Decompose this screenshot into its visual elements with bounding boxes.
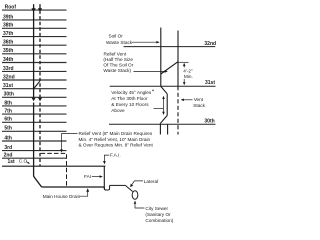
- svg-text:37th: 37th: [3, 31, 13, 37]
- svg-text:At The 30th Floor: At The 30th Floor: [111, 96, 148, 101]
- soil stack (left diagram): [34, 4, 42, 187]
- fresh air inlet vertical: [103, 166, 105, 189]
- svg-text:6th: 6th: [4, 117, 11, 123]
- Soil Or Waste Stack arrow: [132, 41, 158, 43]
- 34th line: [2, 62, 67, 64]
- soil stack bend into drain: [34, 166, 42, 187]
- 31st line detail: [110, 85, 216, 87]
- svg-text:5th: 5th: [4, 126, 11, 132]
- svg-text:Waste Stack: Waste Stack: [106, 40, 133, 45]
- 8th line: [2, 105, 67, 107]
- svg-text:Vent: Vent: [194, 97, 204, 102]
- detail floor lines: [109, 47, 216, 125]
- mini relief vent diagonal between 32nd and 31st: [34, 81, 40, 88]
- svg-text:Min. 4” Relief Vent, 10” Main: Min. 4” Relief Vent, 10” Main Drain: [79, 137, 151, 142]
- svg-text:Soil Or: Soil Or: [109, 34, 124, 39]
- svg-text:Above: Above: [111, 108, 125, 113]
- svg-text:(Sanitary Or: (Sanitary Or: [145, 212, 171, 217]
- relief vent note leader: [62, 134, 78, 151]
- 33rd line: [2, 70, 67, 72]
- svg-text:F.A.I.: F.A.I.: [110, 152, 121, 157]
- 5th line: [2, 130, 67, 132]
- flow arrow on waste stack below 30th line: [38, 98, 42, 102]
- 6th line: [2, 121, 67, 123]
- dimension 4'-2" min extension line: [178, 61, 188, 63]
- flow arrow on soil stack below 30th line: [32, 98, 36, 102]
- svg-text:35th: 35th: [3, 48, 13, 54]
- svg-text:4’-2”: 4’-2”: [183, 68, 193, 73]
- svg-text:34th: 34th: [3, 57, 13, 63]
- house trap hub: [104, 185, 109, 190]
- svg-text:& Every 10 Floors: & Every 10 Floors: [111, 102, 149, 107]
- svg-text:Main House Drain: Main House Drain: [43, 194, 81, 199]
- 39th line: [2, 19, 67, 21]
- svg-text:30th: 30th: [204, 118, 214, 124]
- svg-text:Min.: Min.: [184, 74, 193, 79]
- Relief Vent arrow: [134, 70, 166, 72]
- 1st floor line merging into main house drain top line: [2, 165, 105, 167]
- svg-text:4th: 4th: [4, 135, 11, 141]
- svg-text:C.O.: C.O.: [19, 158, 29, 163]
- vent terminal arrow right stack: [38, 8, 42, 12]
- manhole ellipse: [132, 191, 138, 199]
- relief vent dashed pipe at base: [41, 153, 67, 186]
- svg-text:Of The Soil Or: Of The Soil Or: [103, 62, 133, 67]
- svg-text:38th: 38th: [3, 23, 13, 29]
- dimension 4'-2" min arrow line: [183, 64, 185, 68]
- 36th line: [2, 44, 67, 46]
- 30th line detail: [109, 123, 216, 125]
- vent stack (detail) dashed part: [177, 86, 179, 134]
- C.O. leader: [26, 162, 28, 163]
- svg-text:(Half The Size: (Half The Size: [103, 57, 133, 62]
- svg-text:Lateral: Lateral: [144, 179, 158, 184]
- svg-text:Combination): Combination): [145, 218, 173, 223]
- svg-text:City Sewer: City Sewer: [145, 206, 168, 211]
- 38th line: [2, 27, 67, 29]
- Main House Drain leader: [80, 191, 88, 197]
- Velocity leader double arrow: [154, 108, 164, 110]
- stray mark: [152, 90, 153, 91]
- 3rd line: [2, 150, 67, 152]
- 7th line: [2, 113, 67, 115]
- 45 deg offset below 31st: [161, 86, 167, 93]
- svg-text:31st: 31st: [205, 80, 215, 86]
- svg-text:FAI: FAI: [84, 174, 91, 179]
- Vent Stack arrow: [183, 99, 193, 101]
- lateral line: [110, 184, 126, 186]
- svg-text:33rd: 33rd: [3, 66, 14, 72]
- lateral diagonal to manhole: [125, 185, 132, 191]
- floor lines left diagram: [2, 10, 67, 158]
- F.A.I. leader: [104, 155, 109, 162]
- svg-text:Relief Vent (8” Main Drain Req: Relief Vent (8” Main Drain Requires: [79, 131, 153, 136]
- svg-text:& Over Requires Min. 8” Relief: & Over Requires Min. 8” Relief Vent: [79, 143, 154, 148]
- 32nd line detail: [124, 46, 216, 48]
- vent stack (detail) solid part: [177, 31, 179, 87]
- svg-text:Relief Vent: Relief Vent: [104, 52, 127, 57]
- svg-text:Roof: Roof: [5, 4, 17, 10]
- branch stub below 30th: [167, 124, 169, 134]
- svg-text:7th: 7th: [4, 109, 11, 115]
- 32nd line: [2, 79, 67, 81]
- svg-text:30th: 30th: [4, 92, 14, 98]
- main house drain bottom line: [42, 186, 105, 188]
- floor labels left: [3, 4, 16, 165]
- svg-text:32nd: 32nd: [204, 41, 216, 47]
- svg-text:2nd: 2nd: [4, 153, 13, 159]
- svg-text:3rd: 3rd: [4, 145, 12, 151]
- svg-text:1st: 1st: [8, 159, 16, 165]
- 37th line: [2, 36, 67, 38]
- svg-text:32nd: 32nd: [3, 74, 15, 80]
- svg-text:Velocity 45° Angles: Velocity 45° Angles: [111, 90, 152, 95]
- 35th line: [2, 53, 67, 55]
- roof line: [2, 9, 67, 11]
- vent terminal arrow left stack: [31, 8, 35, 12]
- vent stack (left diagram, dashed): [39, 4, 41, 166]
- relief vent diagonal: [161, 62, 178, 74]
- Lateral leader: [131, 181, 143, 185]
- svg-text:39th: 39th: [3, 14, 13, 20]
- City Sewer leader: [135, 203, 144, 208]
- 30th line: [2, 96, 67, 98]
- 45 deg offset at 30th: [160, 116, 167, 124]
- 2nd line: [2, 157, 67, 159]
- svg-text:Waste Stack): Waste Stack): [103, 68, 131, 73]
- svg-text:36th: 36th: [3, 40, 13, 46]
- svg-text:31st: 31st: [3, 83, 13, 89]
- soil stack (detail): [160, 28, 167, 135]
- svg-text:Stack: Stack: [193, 103, 205, 108]
- FAI arrow: [92, 176, 100, 178]
- 4th line: [2, 140, 67, 142]
- svg-text:8th: 8th: [4, 100, 11, 106]
- 31st line: [2, 88, 67, 90]
